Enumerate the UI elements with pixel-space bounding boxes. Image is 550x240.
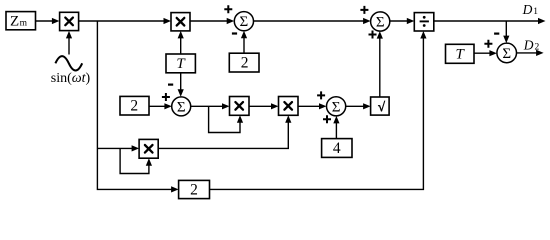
- block T1: [166, 54, 195, 73]
- wire 2c to divider bottom: [210, 31, 427, 189]
- label T1: [176, 56, 186, 72]
- wire X2 to sum S1: [190, 18, 234, 24]
- wire M1 to X3: [191, 103, 230, 109]
- summer S1: [234, 12, 253, 31]
- summer M1: [172, 97, 191, 116]
- label 2a: [241, 54, 249, 71]
- wire S2 to divider: [390, 18, 415, 24]
- summer M2: [327, 97, 346, 116]
- wire 2a to S1: [241, 31, 247, 53]
- block const 2c: [179, 180, 210, 198]
- sign plus M2 left: [317, 91, 325, 99]
- label sigma M2: [332, 99, 341, 115]
- block const 2b: [120, 96, 149, 115]
- wire T1 to X2: [178, 31, 184, 54]
- label sigma S3: [502, 46, 511, 62]
- wire divider to D1 output: [434, 18, 546, 24]
- svg-text:2: 2: [241, 54, 249, 71]
- svg-text:Σ: Σ: [332, 99, 341, 115]
- svg-text:sin(ωt): sin(ωt): [51, 71, 91, 86]
- label sqrt: [378, 99, 386, 114]
- label D2: [523, 37, 540, 52]
- wire sine to X1: [66, 31, 72, 55]
- summer S2: [371, 12, 390, 31]
- svg-text:Σ: Σ: [502, 46, 511, 62]
- sign plus S3 left: [484, 40, 492, 48]
- wire trunk vertical left with bottom corner: [97, 21, 178, 193]
- wire squaring loop X3: [209, 106, 244, 132]
- wire X1 to X2: [79, 18, 171, 24]
- wire T2 to S3: [474, 50, 497, 56]
- label 2b: [130, 98, 138, 115]
- label 2c: [190, 182, 198, 199]
- block T2: [446, 44, 475, 63]
- label 4: [333, 140, 341, 157]
- wire T1 to sum M1: [178, 73, 184, 97]
- svg-text:2: 2: [190, 182, 198, 199]
- label Zm: [10, 13, 28, 29]
- svg-text:1: 1: [533, 7, 538, 17]
- wire 2b to sum M1: [149, 103, 172, 109]
- svg-text:Σ: Σ: [376, 15, 385, 31]
- sine source sin(wt): [55, 56, 82, 70]
- sign plus S2 bottom: [369, 31, 377, 39]
- sign plus M2 bottom: [323, 115, 331, 123]
- svg-text:2: 2: [535, 42, 540, 52]
- sign plus S1 left: [224, 5, 232, 13]
- wire Zm to X1: [36, 18, 60, 24]
- summer S3: [497, 43, 517, 63]
- label sigma M1: [177, 99, 186, 115]
- svg-text:D: D: [522, 2, 533, 17]
- wire 4 to M2: [333, 116, 339, 139]
- multiplier X4: [279, 97, 299, 116]
- sqrt block: [371, 97, 390, 115]
- label sigma S2: [376, 15, 385, 31]
- wire trunk branch to X5: [97, 145, 139, 151]
- wire S1 to S2: [254, 18, 371, 24]
- sign minus S3 top: [494, 32, 499, 34]
- sign plus M1 left: [162, 93, 170, 101]
- svg-text:2: 2: [130, 98, 138, 115]
- wire S3 to D2 output: [517, 50, 544, 56]
- label D1: [522, 2, 539, 17]
- block Zm: [6, 12, 36, 30]
- label T2: [456, 47, 466, 63]
- label sigma S1: [240, 14, 249, 30]
- svg-text:D: D: [523, 37, 534, 52]
- svg-text:Z: Z: [10, 13, 19, 29]
- wire sqrt to S2: [377, 31, 383, 97]
- sign plus S2 left: [360, 6, 368, 14]
- wire squaring loop X5: [120, 148, 152, 173]
- sign minus T1 input: [168, 83, 173, 85]
- sign minus S1 bottom: [232, 32, 237, 34]
- svg-text:Σ: Σ: [240, 14, 249, 30]
- svg-text:√: √: [378, 99, 386, 114]
- svg-text:m: m: [20, 18, 28, 28]
- svg-text:4: 4: [333, 140, 341, 157]
- multiplier X5: [139, 139, 158, 158]
- wire X4 to sum M2: [298, 103, 327, 109]
- block const 4: [322, 139, 352, 158]
- wire X5 to X4 bottom: [158, 115, 291, 148]
- wire branch to sum S3: [503, 21, 509, 43]
- multiplier X2: [171, 13, 190, 31]
- divider block: [414, 13, 434, 31]
- wire M2 to sqrt: [346, 103, 371, 109]
- multiplier X3: [230, 97, 250, 116]
- block const 2a: [229, 53, 259, 72]
- label sin(wt): [51, 71, 91, 86]
- svg-text:Σ: Σ: [177, 99, 186, 115]
- multiplier X1: [60, 12, 79, 30]
- wire X3 to X4: [249, 103, 279, 109]
